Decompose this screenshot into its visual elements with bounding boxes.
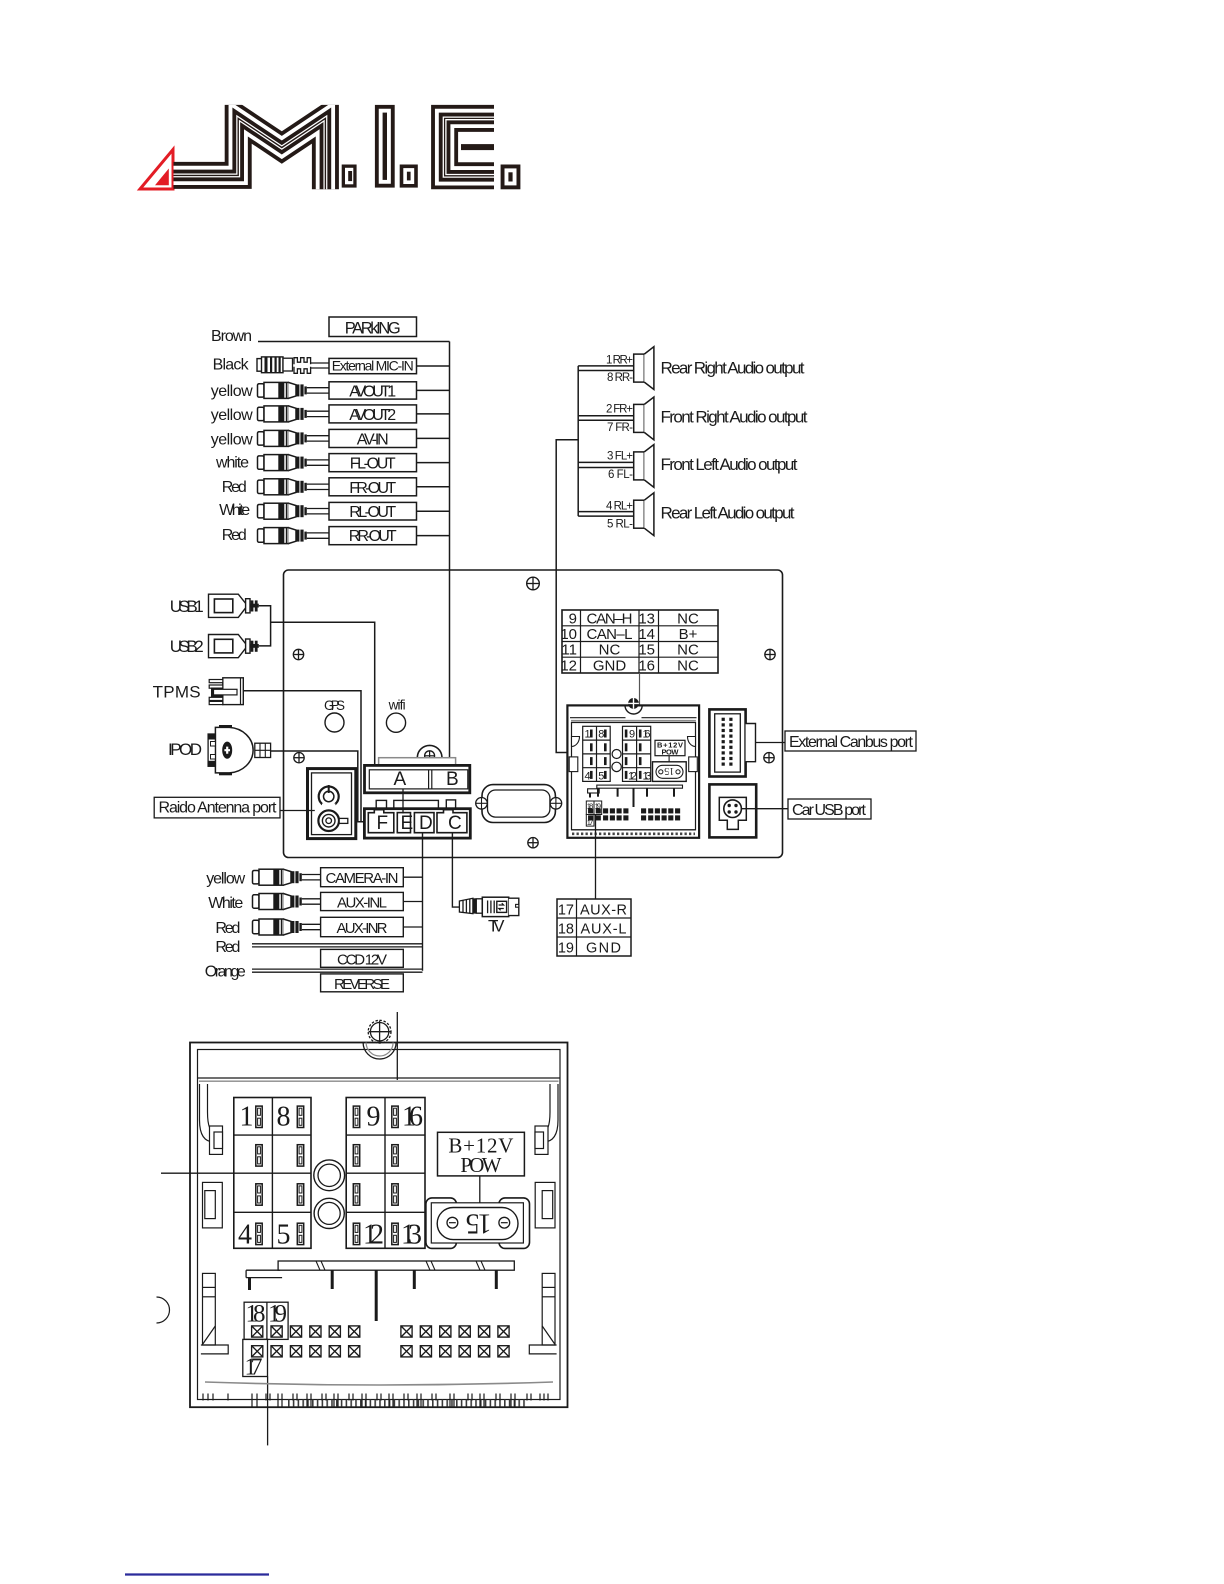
svg-text:5: 5 xyxy=(598,770,604,782)
label box Raido Antenna port xyxy=(154,797,280,818)
svg-text:9: 9 xyxy=(367,1101,381,1132)
screw arch notch xyxy=(363,1043,396,1060)
connector TV plug xyxy=(459,897,518,916)
x-pin row 1 xyxy=(252,1326,510,1337)
svg-text:F: F xyxy=(377,813,389,834)
svg-text:USB1: USB1 xyxy=(170,597,204,616)
radio antenna port component xyxy=(308,769,356,839)
wire AB block to E xyxy=(402,789,404,813)
label B+12V POW (small) xyxy=(655,740,685,755)
svg-text:Rear Right Audio output: Rear Right Audio output xyxy=(661,359,805,378)
bottom comb band xyxy=(286,1400,527,1407)
connector RCA yellow AVOUT1 xyxy=(258,382,330,398)
wire antenna label leader xyxy=(280,810,315,812)
svg-text:RR-OUT: RR-OUT xyxy=(349,528,397,545)
wire 8 RR- xyxy=(578,370,634,372)
17 cell xyxy=(243,1339,268,1376)
connector External Canbus xyxy=(709,709,755,776)
svg-text:POW: POW xyxy=(662,747,680,756)
svg-text:1: 1 xyxy=(585,729,591,741)
logo letter I (striped) xyxy=(375,105,395,188)
wire IPOD to F xyxy=(271,751,377,822)
svg-text:FR-OUT: FR-OUT xyxy=(349,480,396,497)
screw left upper xyxy=(293,649,303,659)
svg-text:Red: Red xyxy=(215,920,240,937)
wire reverse leader to big connector xyxy=(396,1012,398,1080)
svg-text:12: 12 xyxy=(363,1219,384,1250)
logo dot after I xyxy=(400,165,418,188)
svg-text:REVERSE: REVERSE xyxy=(334,976,390,993)
wire TPMS to F xyxy=(243,691,361,822)
connector block F/E/D/C xyxy=(364,800,470,838)
ISO connector block (rear panel) xyxy=(567,698,699,838)
svg-text:15: 15 xyxy=(466,1208,492,1239)
node RCA bus xyxy=(449,342,451,773)
box FR-OUT xyxy=(329,478,417,496)
wire 17 block leader xyxy=(267,1377,269,1446)
ISO left pin grid xyxy=(583,726,611,781)
svg-text:IPOD: IPOD xyxy=(168,740,202,759)
connector RCA white RL-OUT xyxy=(258,503,330,519)
wire bus branch to unit xyxy=(556,440,578,753)
right hook feature xyxy=(535,1084,558,1154)
svg-text:AVOUT1: AVOUT1 xyxy=(349,383,396,400)
svg-text:External MIC-IN: External MIC-IN xyxy=(332,358,414,374)
svg-text:B: B xyxy=(446,769,459,790)
svg-text:CCD 12V: CCD 12V xyxy=(337,951,387,968)
connector USB1 xyxy=(170,594,259,617)
connector RCA yellow AVOUT2 xyxy=(258,406,330,422)
speaker rear left xyxy=(634,493,654,536)
svg-text:Red: Red xyxy=(222,479,247,496)
big left pin block xyxy=(234,1098,311,1249)
wire 6 FL- xyxy=(578,467,634,469)
ISO 18/19 cell xyxy=(586,801,601,815)
label box External Canbus port xyxy=(785,731,916,751)
wire 4 RL+ xyxy=(578,511,634,513)
wire car usb leader xyxy=(742,808,789,810)
box AV-IN xyxy=(329,429,417,447)
svg-text:7 FR-: 7 FR- xyxy=(607,422,633,434)
connector RCA red AUX-INR xyxy=(253,919,325,935)
svg-text:wifi: wifi xyxy=(388,698,406,713)
wire 7 FR- xyxy=(578,419,634,421)
svg-text:AUX-R: AUX-R xyxy=(580,902,627,918)
svg-text:GND: GND xyxy=(586,940,621,956)
pin 16 xyxy=(392,1106,398,1127)
speaker front right xyxy=(634,397,654,440)
pin 13 xyxy=(392,1223,398,1244)
box PARkING xyxy=(329,317,417,337)
svg-text:D: D xyxy=(419,813,433,834)
ISO guide circles xyxy=(612,750,621,759)
left lug xyxy=(203,1182,223,1228)
svg-text:AUX-INL: AUX-INL xyxy=(337,895,387,912)
svg-text:16: 16 xyxy=(638,657,655,674)
row3 slots xyxy=(256,1184,262,1205)
svg-text:yellow: yellow xyxy=(211,432,253,449)
svg-text:Front Right Audio output: Front Right Audio output xyxy=(661,408,808,427)
connector RCA yellow AV-IN xyxy=(258,430,330,446)
svg-text:Black: Black xyxy=(213,357,250,374)
big connector outer shell xyxy=(190,1043,568,1408)
svg-text:White: White xyxy=(219,502,250,519)
ISO comb rail xyxy=(597,785,683,788)
ISO right pin grid xyxy=(623,726,651,781)
svg-text:CAN–L: CAN–L xyxy=(587,626,633,643)
arc fragment left xyxy=(157,1297,170,1323)
connector block A/B xyxy=(365,745,470,792)
ISO 17 cell xyxy=(586,815,594,827)
connector USB2 xyxy=(170,635,259,658)
screw right upper xyxy=(765,649,775,659)
wire canbus leader xyxy=(756,742,786,744)
svg-text:17: 17 xyxy=(558,902,574,918)
logo letter C (striped) xyxy=(445,118,494,175)
pin 12 xyxy=(353,1223,359,1244)
box AUX-INR xyxy=(321,917,404,936)
svg-text:NC: NC xyxy=(677,610,699,627)
box External MIC-IN xyxy=(329,358,417,373)
screw bottom center xyxy=(528,838,538,848)
box AVOUT2 xyxy=(329,405,417,423)
box RR-OUT xyxy=(329,527,417,545)
svg-text:AUX-INR: AUX-INR xyxy=(337,920,388,937)
label box B+12V POW xyxy=(438,1132,525,1176)
screw top center xyxy=(527,577,540,590)
antenna GPS circle xyxy=(325,713,344,732)
connector IPOD xyxy=(168,725,271,775)
svg-text:14: 14 xyxy=(638,626,655,643)
svg-text:AUX-L: AUX-L xyxy=(581,921,627,937)
svg-text:GPS: GPS xyxy=(324,698,345,713)
logo dot after M xyxy=(342,165,357,188)
svg-text:4: 4 xyxy=(238,1219,252,1250)
svg-text:NC: NC xyxy=(599,642,621,659)
node lower bus xyxy=(422,833,424,971)
svg-text:yellow: yellow xyxy=(211,383,253,400)
right lug xyxy=(535,1182,555,1228)
box CAMERA-IN xyxy=(321,868,404,887)
svg-text:1 RR+: 1 RR+ xyxy=(606,354,633,366)
connector RCA white FL-OUT xyxy=(258,455,330,471)
node speaker bus xyxy=(577,366,579,516)
wire camera to bus xyxy=(403,876,422,878)
svg-text:19: 19 xyxy=(268,1301,287,1328)
connector RCA red FR-OUT xyxy=(258,479,330,495)
svg-text:4 RL+: 4 RL+ xyxy=(606,500,633,512)
speaker front left xyxy=(634,445,654,488)
box AUX-INL xyxy=(321,892,404,910)
pin table AUX 17/18/19 xyxy=(557,899,631,956)
svg-text:E: E xyxy=(401,813,414,834)
svg-text:Rear Left Audio output: Rear Left Audio output xyxy=(661,504,795,523)
svg-text:11: 11 xyxy=(561,642,577,659)
connector RCA red RR-OUT xyxy=(258,528,330,544)
svg-text:Front Left Audio output: Front Left Audio output xyxy=(661,455,798,474)
svg-text:16: 16 xyxy=(402,1101,423,1132)
top band line xyxy=(198,1077,561,1079)
wire auxinr to bus xyxy=(403,926,422,928)
ISO bottom band xyxy=(572,829,696,831)
svg-text:Raido Antenna port: Raido Antenna port xyxy=(159,800,278,817)
bottom inner curve xyxy=(205,1382,553,1385)
wire pow leader xyxy=(479,1176,481,1207)
svg-text:9: 9 xyxy=(629,729,635,741)
svg-text:8: 8 xyxy=(277,1101,291,1132)
left hook feature xyxy=(200,1084,223,1154)
wire auxinl to bus xyxy=(403,901,422,903)
svg-text:B+: B+ xyxy=(679,626,698,643)
svg-text:FL-OUT: FL-OUT xyxy=(350,456,396,473)
connector power 15 xyxy=(426,1198,530,1249)
svg-text:yellow: yellow xyxy=(206,871,245,888)
svg-text:white: white xyxy=(215,455,249,472)
screw left lower xyxy=(294,753,304,763)
wire 2 FR+ xyxy=(578,415,634,417)
svg-text:16: 16 xyxy=(643,729,651,741)
wire ISO 18/19 to AUX table xyxy=(595,815,597,900)
ISO side lugs xyxy=(569,757,578,772)
svg-text:Red: Red xyxy=(222,527,247,544)
wire USB1/USB2 to A xyxy=(259,606,271,646)
svg-text:CAMERA-IN: CAMERA-IN xyxy=(326,870,399,887)
box CCD 12V xyxy=(321,949,404,967)
svg-text:12: 12 xyxy=(560,657,577,674)
row3 slots xyxy=(353,1184,359,1205)
svg-text:10: 10 xyxy=(560,626,577,643)
svg-text:13: 13 xyxy=(643,770,652,782)
component center oval xyxy=(476,785,562,823)
wire Red ccd xyxy=(252,943,423,945)
screw right lower xyxy=(764,753,774,763)
comb rail big xyxy=(246,1261,514,1321)
footer rule xyxy=(125,1573,269,1575)
svg-text:8 RR-: 8 RR- xyxy=(607,372,633,384)
svg-text:6 FL-: 6 FL- xyxy=(608,469,633,481)
svg-text:Orange: Orange xyxy=(205,964,246,981)
svg-text:AVOUT2: AVOUT2 xyxy=(349,407,396,424)
connector power 15 (small) xyxy=(653,762,687,782)
main unit rear panel box xyxy=(284,570,783,858)
svg-text:POW: POW xyxy=(460,1153,501,1177)
connector External MIC-IN plug xyxy=(257,357,330,373)
big right pin block xyxy=(346,1098,425,1249)
box REVERSE xyxy=(321,974,404,992)
guide circle lower xyxy=(314,1198,344,1228)
svg-text:17: 17 xyxy=(245,1355,263,1381)
svg-text:NC: NC xyxy=(677,657,699,674)
svg-text:Car USB port: Car USB port xyxy=(792,802,867,819)
antenna wifi circle xyxy=(386,713,405,732)
screw big connector top xyxy=(368,1020,391,1043)
svg-text:15: 15 xyxy=(664,765,674,776)
18/19 cells xyxy=(244,1302,288,1339)
svg-text:5: 5 xyxy=(277,1219,291,1250)
box RL-OUT xyxy=(329,502,417,520)
wire C to TV xyxy=(452,833,459,907)
label box Car USB port xyxy=(788,799,871,819)
svg-text:NC: NC xyxy=(677,642,699,659)
logo red triangle xyxy=(140,150,173,190)
leader line left xyxy=(161,1172,234,1174)
wire MIC to bus xyxy=(417,365,450,367)
wire 1 RR+ xyxy=(578,365,634,367)
left lower post xyxy=(201,1273,228,1354)
svg-text:5 RL-: 5 RL- xyxy=(607,518,633,530)
svg-text:USB2: USB2 xyxy=(170,637,204,656)
ISO x-pin rows xyxy=(589,809,680,820)
svg-text:yellow: yellow xyxy=(211,407,253,424)
wire Orange xyxy=(252,968,423,970)
svg-text:AV-IN: AV-IN xyxy=(357,431,389,448)
svg-text:TV: TV xyxy=(488,917,505,936)
svg-text:4: 4 xyxy=(585,770,591,782)
box AVOUT1 xyxy=(329,382,417,399)
svg-text:19: 19 xyxy=(558,940,574,956)
x-pin row 2 xyxy=(252,1346,510,1357)
svg-text:12: 12 xyxy=(628,770,637,782)
svg-text:CAN–H: CAN–H xyxy=(587,610,633,627)
row2 slots xyxy=(353,1145,359,1166)
logo dot after C xyxy=(501,165,521,190)
screw ISO top xyxy=(625,705,642,714)
pin table 9-16 xyxy=(562,610,718,673)
svg-text:Red: Red xyxy=(215,939,240,956)
svg-text:8: 8 xyxy=(598,729,604,741)
wire PARKING brown xyxy=(258,341,450,343)
svg-text:18: 18 xyxy=(246,1301,266,1328)
row2 slots xyxy=(256,1145,262,1166)
svg-text:1: 1 xyxy=(240,1101,254,1132)
svg-text:External Canbus port: External Canbus port xyxy=(789,734,914,751)
connector RCA yellow CAMERA-IN xyxy=(253,869,325,885)
wire table to ISO screw xyxy=(639,673,641,720)
connector TPMS xyxy=(153,678,244,705)
svg-text:18: 18 xyxy=(558,921,574,937)
connector RCA white AUX-INL xyxy=(253,894,325,910)
wire 5 RL- xyxy=(578,515,634,517)
svg-text:C: C xyxy=(448,813,462,834)
svg-text:15: 15 xyxy=(638,642,655,659)
right lower post xyxy=(529,1273,556,1354)
svg-text:GND: GND xyxy=(593,657,627,674)
svg-text:PARkING: PARkING xyxy=(345,320,401,338)
wire 3 FL+ xyxy=(578,461,634,463)
speaker rear right xyxy=(634,347,654,390)
svg-text:Brown: Brown xyxy=(211,328,252,345)
svg-text:9: 9 xyxy=(569,610,577,627)
svg-text:13: 13 xyxy=(401,1219,422,1250)
connector Car USB port xyxy=(709,784,756,837)
svg-text:2 FR+: 2 FR+ xyxy=(606,404,633,416)
svg-text:RL-OUT: RL-OUT xyxy=(349,504,396,521)
guide circle upper xyxy=(314,1160,345,1191)
svg-text:TPMS: TPMS xyxy=(153,683,201,702)
svg-text:13: 13 xyxy=(638,610,655,627)
svg-text:White: White xyxy=(208,895,243,912)
svg-text:A: A xyxy=(394,769,407,790)
svg-text:3 FL+: 3 FL+ xyxy=(607,451,633,463)
box FL-OUT xyxy=(329,454,417,472)
pin 9 xyxy=(353,1106,359,1127)
